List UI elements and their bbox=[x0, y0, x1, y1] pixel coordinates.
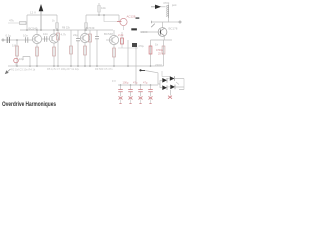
capacitor C6 electrolytic left bbox=[14, 57, 24, 66]
wiper arrow P1 bbox=[151, 5, 166, 9]
ground C11 red X bbox=[119, 96, 123, 103]
transistor T5 bbox=[140, 27, 178, 37]
svg-text:47µ: 47µ bbox=[143, 81, 148, 85]
resistor R8 x90 bbox=[89, 30, 92, 66]
resistor R2 to ground bbox=[12, 39, 18, 66]
capacitor C12 filter bbox=[128, 85, 133, 96]
wire output row y48 bbox=[118, 47, 138, 49]
node rail junctions bbox=[26, 14, 100, 31]
label filter note bbox=[112, 80, 116, 83]
ground arrow left bbox=[5, 69, 11, 74]
node input terminal bbox=[2, 39, 4, 41]
label dark C8 bbox=[136, 17, 140, 19]
svg-text:4,7k: 4,7k bbox=[61, 33, 67, 37]
ground bridge red X bbox=[168, 96, 172, 99]
svg-text:BC548: BC548 bbox=[104, 32, 113, 36]
svg-text:BC549: BC549 bbox=[29, 26, 38, 30]
ground C13 red X bbox=[139, 96, 143, 103]
wire top rail A y15 bbox=[27, 14, 119, 16]
capacitor C2 series bbox=[23, 34, 28, 43]
label rail voltage bbox=[30, 10, 36, 14]
ground C14 red X bbox=[149, 96, 153, 103]
transistor T3 bbox=[80, 26, 94, 43]
svg-text:R5 4,7k C7 100µ R7 1k 22µ: R5 4,7k C7 100µ R7 1k 22µ bbox=[47, 67, 80, 71]
svg-text:R2 1M C3 10n R4 1k: R2 1M C3 10n R4 1k bbox=[11, 68, 36, 72]
svg-text:12 V: 12 V bbox=[30, 10, 36, 14]
diode bridge D1 bbox=[162, 78, 167, 83]
resistor R11 red bbox=[118, 32, 124, 48]
capacitor C13 filter bbox=[138, 85, 143, 96]
wire bridge feed bbox=[158, 71, 170, 88]
svg-text:BC549: BC549 bbox=[86, 26, 95, 30]
svg-text:2,2k: 2,2k bbox=[118, 33, 124, 37]
ground C12 red X bbox=[129, 96, 133, 103]
resistor R4 emitter T2 bbox=[53, 43, 56, 66]
svg-text:470k: 470k bbox=[163, 1, 170, 5]
resistor R6 x71 bbox=[70, 30, 73, 66]
wire bridge links bbox=[160, 79, 170, 88]
transistor T2 bbox=[49, 30, 58, 43]
svg-text:jack: jack bbox=[171, 4, 177, 7]
svg-text:100µ: 100µ bbox=[123, 81, 129, 85]
svg-text:0,1µ: 0,1µ bbox=[6, 34, 12, 38]
svg-text:9 V: 9 V bbox=[112, 80, 116, 83]
resistor R13 x163 bbox=[155, 40, 165, 66]
svg-text:10n: 10n bbox=[43, 32, 48, 36]
svg-text:10k: 10k bbox=[101, 6, 106, 10]
svg-text:470µ: 470µ bbox=[138, 45, 144, 48]
wire ground bus y66 bbox=[8, 65, 164, 67]
wire supply bus y85 bbox=[118, 81, 158, 86]
capacitor C9 electrolytic dark bbox=[132, 43, 144, 85]
wire bridge AC right bbox=[175, 79, 185, 90]
svg-text:25 V: 25 V bbox=[158, 53, 163, 56]
svg-text:Overdrive Harmoniques: Overdrive Harmoniques bbox=[2, 101, 56, 108]
diode bridge D3 bbox=[162, 85, 167, 90]
wire bridge bottom bbox=[170, 90, 172, 96]
capacitor C10 output dark bar bbox=[131, 28, 148, 34]
resistor R9 emitter T4 bbox=[113, 45, 116, 66]
potentiometer P1 volume bbox=[163, 1, 170, 18]
svg-text:10n: 10n bbox=[23, 34, 28, 38]
wire main rail B y30 bbox=[20, 29, 113, 31]
resistor R3 emitter T1 bbox=[36, 44, 39, 66]
resistor R7 emitter T3 bbox=[84, 43, 87, 66]
capacitor C3 coupling bbox=[42, 32, 50, 42]
resistor decoupling drop x86 bbox=[62, 15, 87, 30]
wire bracket x23 bbox=[23, 57, 30, 61]
capacitor C14 filter bbox=[148, 85, 153, 96]
transistor T6 red bbox=[117, 15, 136, 30]
capacitor C4 x78 bbox=[73, 30, 80, 66]
wire upper branch x104 bbox=[103, 14, 119, 21]
resistor R10 top stub x99 bbox=[98, 3, 107, 15]
switch S1 bbox=[139, 63, 161, 73]
svg-text:47µ: 47µ bbox=[133, 81, 138, 85]
resistor R12 x150 bbox=[149, 40, 152, 66]
label values under ground bus bbox=[11, 67, 113, 72]
diode bridge D2 bbox=[170, 76, 175, 81]
svg-text:BC178: BC178 bbox=[169, 27, 178, 31]
svg-text:1M: 1M bbox=[12, 44, 17, 48]
capacitor C11 filter bbox=[118, 85, 123, 96]
capacitor C5 x97 bbox=[95, 30, 99, 66]
svg-text:22µ: 22µ bbox=[73, 33, 78, 37]
transistor T1 bbox=[29, 26, 42, 43]
resistor R5 collector load x58 bbox=[57, 29, 67, 66]
resistor decoupling drop x57 bbox=[52, 15, 58, 30]
svg-text:AC128: AC128 bbox=[127, 15, 136, 19]
svg-text:R9 560 C5 47n: R9 560 C5 47n bbox=[95, 67, 113, 71]
diode bridge D4 bbox=[170, 85, 175, 90]
wire T5 emitter row y40 bbox=[151, 36, 173, 40]
svg-text:220V: 220V bbox=[155, 63, 162, 67]
wire rail A left drop x27 bbox=[26, 15, 28, 30]
svg-text:R8 22k: R8 22k bbox=[62, 27, 71, 30]
resistor R1 bias left bbox=[8, 19, 27, 25]
wire input line y40 bbox=[4, 39, 33, 41]
capacitor C1 input bbox=[6, 34, 12, 44]
svg-text:47k: 47k bbox=[9, 19, 14, 23]
wire pot bottom to T5 bbox=[151, 4, 181, 28]
power supply arrow +9V bbox=[39, 4, 44, 30]
svg-text:4700µ: 4700µ bbox=[156, 49, 164, 52]
caption Overdrive Harmoniques bbox=[2, 101, 56, 108]
wire rail A right corner into T6 bbox=[118, 15, 120, 22]
wire x128 drop bbox=[127, 40, 129, 66]
wire stub x30 bbox=[29, 57, 31, 67]
transistor T4 bbox=[104, 30, 119, 45]
